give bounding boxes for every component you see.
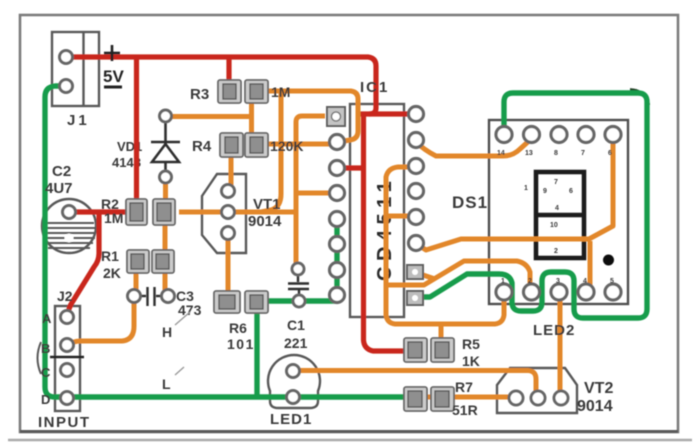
svg-text:L: L [162,376,171,392]
resistor R4 pads [220,133,268,157]
svg-text:1K: 1K [462,353,480,369]
label R1 [101,248,121,281]
label J2 pins A B C D [41,311,52,407]
svg-text:H: H [162,324,172,340]
wire IC1 pin12 square stub [414,272,435,279]
label R2 [101,196,123,226]
svg-text:9: 9 [543,188,547,195]
wire IC1 pin13 line A to DS1 pad5 top [415,140,613,250]
wire +5V down through IC1 to R5 [364,112,407,351]
IC1 pin1 square pad [327,107,345,126]
wire R1 left to C3 left [134,271,139,290]
display DS1 body [489,120,628,304]
svg-text:B: B [41,341,50,356]
svg-text:D: D [41,392,50,407]
svg-text:J2: J2 [57,288,73,304]
transistor VT1 pads [222,185,235,240]
wire dark shading at green corner [630,90,649,105]
diode VD1 pads [160,110,172,183]
svg-text:C: C [41,365,51,380]
label R5 [462,336,480,369]
svg-text:6: 6 [569,188,573,195]
label R7 [452,379,478,418]
label VT2 [577,380,613,415]
IC1 left pads [330,135,345,303]
svg-text:5: 5 [610,278,614,285]
svg-text:LED2: LED2 [533,322,575,339]
svg-text:473: 473 [178,302,202,318]
capacitor C3 pads [128,290,175,303]
label VT1 [248,196,282,230]
svg-text:J1: J1 [67,112,90,129]
wire ground J1 to J2 D LED1 R7 [45,86,406,397]
svg-text:C2: C2 [52,163,71,180]
label C2 [45,163,73,197]
svg-text:LED1: LED1 [270,411,312,428]
connector J1 pads [60,51,73,93]
svg-text:C1: C1 [287,317,305,333]
wire +5V main from J1 to IC1 [64,57,376,114]
wire branch line A to DS1 pad4 bottom [588,241,593,287]
connector J2 body [38,306,85,411]
resistor R1 pads [127,250,174,273]
label R6 value (under trace) [227,320,255,352]
svg-text:13: 13 [525,150,533,157]
wire R3 1M line to IC1 pin2 [256,91,358,142]
LED1 pads [287,365,300,404]
svg-text:1M: 1M [104,210,123,226]
connector J2 pads [61,311,74,405]
DS1 top pin numbers [497,150,612,157]
wire IC1 pin9 weave to DS1 pad1 top [415,93,647,318]
svg-text:4U7: 4U7 [45,180,73,197]
wire R6 to C1 to IC1 pin5 [266,298,336,303]
svg-text:2: 2 [554,248,558,255]
green traces [45,86,649,397]
svg-text:VT2: VT2 [584,380,613,397]
DS1 7-segment digit [534,172,586,258]
symbol +5V [103,45,124,87]
wire IC1 pin3 stub [344,165,364,170]
wire R3 branch down to node H line [261,93,281,212]
svg-text:9014: 9014 [248,213,282,230]
wire IC1 pin11 stub [386,214,414,219]
svg-text:7: 7 [581,150,585,157]
svg-text:IC1: IC1 [360,79,389,96]
svg-text:INPUT: INPUT [38,414,91,431]
wire R6 down to ground line [254,312,259,397]
wire IC1 pin10 internal vertical to DS1 pad1 [386,167,504,324]
DS1 digit segment numbers [524,179,573,255]
label C3 [176,288,202,318]
leader line node H [175,312,190,325]
leader line node L [175,367,184,375]
wire IC1 pin15 to DS1 pad2 top [415,140,530,156]
wire R2 VT1 node H horizontal [179,210,296,215]
capacitor C2 body [42,199,96,253]
wire R7 to VT2 left pad [415,395,512,400]
IC1 right pads [409,107,424,251]
wire IC1 pin12 branch to DS1 pad2 bottom [386,261,530,286]
svg-text:120K: 120K [270,138,303,154]
svg-text:R1: R1 [101,248,119,264]
transistor VT2 pads [509,391,568,405]
diode VD1 symbol [151,122,180,172]
IC U1 CD4511 body [350,104,404,317]
svg-text:R7: R7 [455,379,473,395]
DS1 bottom pin numbers [501,278,614,285]
wire VD1 to R2 [163,182,168,201]
resistor R7 pads [404,387,454,411]
svg-text:1: 1 [501,278,505,285]
svg-text:R4: R4 [192,138,212,155]
svg-text:DS1: DS1 [452,193,488,212]
label C1 [284,317,308,351]
wire branch to J2 pin A [68,213,99,316]
wire VD1 to R3/R4 junction [171,114,252,119]
svg-text:A: A [42,311,52,326]
resistor R2 pads [126,199,175,225]
resistor R3 pads [218,80,268,103]
wire riser x296 up to IC1 pin1 and down to C1 [296,116,325,263]
svg-text:221: 221 [284,335,308,351]
wire VT1 to R6 [226,239,231,292]
DS1 top pads [496,127,621,143]
svg-text:10: 10 [550,222,558,229]
IC1 pin12 pin9 square pads [407,265,423,305]
resistor R5 pads [404,338,454,362]
svg-text:R5: R5 [462,336,480,352]
svg-text:14: 14 [497,150,505,157]
wire +5V branch to R3 [226,59,231,80]
DS1 decimal point [603,255,614,266]
wire R3 to R4 vertical [249,99,254,134]
svg-text:7: 7 [554,179,558,186]
transistor VT2 body [497,368,577,413]
resistor R6 pads [214,291,268,313]
capacitor C1 pads [292,263,305,307]
wire C3 to J2 pin B [70,301,134,345]
wire LED1 to VT2 middle pad [297,371,536,393]
svg-text:VT1: VT1 [253,196,281,213]
wire DS1 pad3 to VT2 right pad [558,299,563,392]
svg-text:8: 8 [554,150,558,157]
DS1 bottom pads [496,284,621,300]
svg-text:4: 4 [555,205,559,212]
wire R4 to VT1 base [229,156,234,185]
red traces [64,57,412,351]
wire R4 to IC1 pin2 [268,142,334,147]
svg-text:101: 101 [227,336,255,352]
svg-text:2K: 2K [103,265,121,281]
wire R5 right pad up to bus [439,323,444,339]
wire IC1 left pads 5-8 vertical [334,221,339,297]
svg-text:R3: R3 [190,86,209,103]
svg-text:4: 4 [583,278,587,285]
capacitor C2 pad [63,206,76,219]
svg-text:51R: 51R [452,402,478,418]
wire branch to IC1 pin4 [296,191,331,196]
capacitor C3 symbol [140,287,162,306]
wire +5V arm to IC1 pin16 [358,111,412,116]
svg-text:2: 2 [528,278,532,285]
svg-text:5V: 5V [103,67,124,86]
wire +5V branch down to R2 [134,59,139,201]
transistor VT1 body [202,174,246,253]
orange traces [70,91,613,397]
capacitor C1 symbol [288,275,309,295]
LED1 body [268,355,320,408]
svg-text:9014: 9014 [577,398,613,415]
svg-text:1: 1 [524,185,528,192]
wire R2 right to C3 right [163,223,168,290]
svg-text:3: 3 [556,278,560,285]
wire C2 to R2 [67,209,127,214]
label VD1 value (under trace) [112,139,142,170]
svg-text:R6: R6 [229,320,247,336]
svg-text:1M: 1M [271,84,290,100]
connector J1 body [52,32,99,106]
svg-text:6: 6 [608,150,612,157]
